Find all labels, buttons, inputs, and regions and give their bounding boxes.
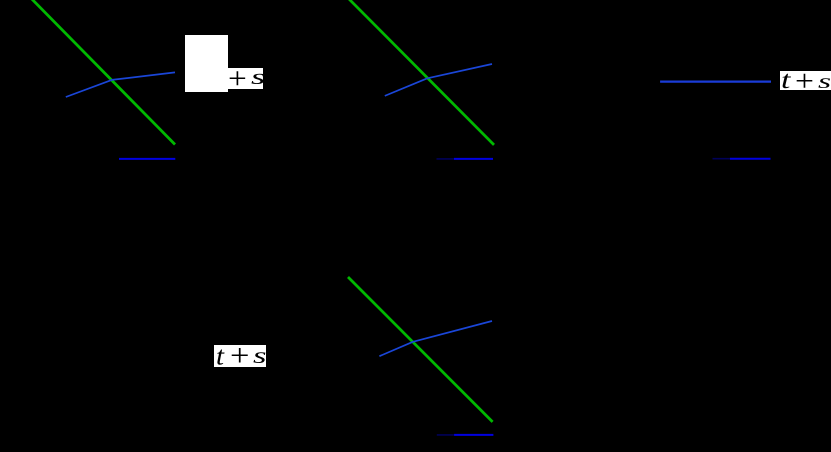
subfig1 white rectangle bbox=[185, 35, 228, 92]
subfig2 dark blue segment bbox=[437, 158, 455, 160]
subfig3 dark blue segment bbox=[713, 158, 731, 160]
subfig4 green trajectory bbox=[348, 277, 493, 422]
subfig2 green trajectory bbox=[349, 0, 494, 145]
subfig2 bright blue segment bbox=[454, 158, 493, 160]
subfig1 label "t + s" (t hidden by white rect) bbox=[211, 68, 263, 89]
subfig1 green trajectory bbox=[32, 0, 175, 145]
subfig4 blue curve bbox=[379, 321, 492, 356]
subfig3 blue horizontal line bbox=[660, 80, 771, 82]
subfig4 dark blue segment bbox=[437, 434, 454, 436]
subfig3 bright blue segment bbox=[730, 158, 771, 160]
subfig4 bright blue segment bbox=[454, 434, 493, 436]
bottom-left label "t + s" bbox=[214, 345, 266, 367]
subfig1 blue segment bbox=[119, 158, 175, 160]
subfig1 blue curve bbox=[66, 72, 175, 97]
subfig2 blue curve bbox=[385, 64, 492, 96]
subfig3 label "t + s" bbox=[780, 71, 831, 91]
